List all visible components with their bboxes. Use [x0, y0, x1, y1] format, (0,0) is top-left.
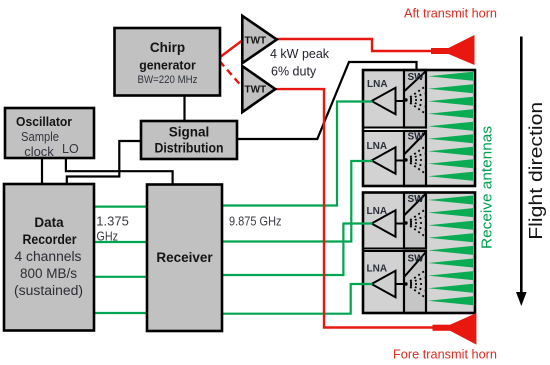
LNA amplifier triangle 2: [372, 147, 396, 173]
antenna array background panel 2: [425, 193, 475, 314]
LNA amplifier triangle 4: [372, 271, 396, 297]
switch box SW1: [404, 70, 426, 128]
svg-text:(sustained): (sustained): [14, 283, 83, 298]
svg-text:BW=220 MHz: BW=220 MHz: [138, 74, 198, 86]
svg-text:800 MB/s: 800 MB/s: [20, 266, 77, 281]
flight direction arrow line: [520, 37, 523, 294]
switch arm diagonal SW4: [405, 253, 426, 277]
box signal distribution: [141, 121, 237, 159]
svg-text:clock: clock: [24, 144, 54, 159]
green wire receiver to LNA1: [222, 102, 373, 206]
switch arm diagonal SW3: [405, 194, 426, 215]
green wire data recorder to receiver ch4: [94, 312, 148, 314]
green wire receiver to LNA3: [222, 224, 373, 276]
green wire data recorder to receiver ch3: [94, 276, 148, 278]
switch fan dotted throws SW2: [410, 147, 424, 173]
LNA module box 2: [363, 131, 404, 186]
LNA amplifier triangle 3: [372, 210, 396, 236]
svg-text:6% duty: 6% duty: [271, 65, 317, 79]
svg-text:Sample: Sample: [21, 129, 59, 144]
svg-text:Fore transmit horn: Fore transmit horn: [393, 347, 497, 362]
svg-text:Receive antennas: Receive antennas: [480, 126, 496, 249]
svg-text:Signal: Signal: [169, 125, 210, 140]
LNA module box 4: [363, 251, 404, 313]
svg-text:TWT: TWT: [245, 36, 267, 47]
red wire TWT1 output to aft horn: [276, 39, 432, 51]
receive panel 2 outline: [363, 193, 475, 314]
svg-text:LNA: LNA: [367, 141, 388, 152]
switch box SW2: [404, 131, 426, 186]
svg-text:SW: SW: [408, 254, 425, 265]
green wire data recorder to receiver ch2: [94, 241, 148, 243]
svg-text:Chirp: Chirp: [150, 40, 185, 55]
green wire receiver to LNA2: [222, 161, 373, 242]
svg-text:SW: SW: [408, 132, 425, 143]
box oscillator: [5, 108, 94, 158]
wire chirp generator to signal distribution: [183, 95, 185, 121]
svg-text:Recorder: Recorder: [23, 232, 78, 247]
switch arm diagonal SW1: [405, 72, 426, 92]
svg-text:4 channels: 4 channels: [15, 249, 82, 264]
switch box SW3: [404, 193, 426, 249]
svg-text:LNA: LNA: [367, 206, 388, 217]
svg-text:Oscillator: Oscillator: [16, 114, 72, 129]
green wire data recorder to receiver ch1: [94, 206, 148, 208]
svg-text:9.875 GHz: 9.875 GHz: [229, 214, 282, 229]
aft transmit horn symbol: [431, 35, 475, 65]
wire signal distribution to data recorder: [67, 141, 142, 185]
TWT amplifier 2: [242, 66, 275, 112]
receive panel 1 outline: [363, 70, 475, 186]
svg-text:Aft transmit horn: Aft transmit horn: [404, 6, 497, 21]
svg-text:Distribution: Distribution: [155, 141, 224, 156]
box receiver: [147, 185, 222, 332]
svg-text:generator: generator: [139, 58, 196, 73]
svg-text:SW: SW: [408, 72, 425, 83]
wire signal distribution to switch column: [237, 62, 417, 139]
fore transmit horn symbol: [433, 313, 477, 345]
svg-text:Data: Data: [34, 215, 64, 230]
svg-text:SW: SW: [408, 194, 425, 205]
wire LNA3 output to SW3: [396, 223, 406, 225]
antenna array background panel 1: [425, 70, 475, 186]
red wire TWT2 output to fore horn: [275, 89, 434, 327]
switch fan dotted throws SW3: [410, 210, 424, 236]
TWT amplifier 1: [242, 16, 276, 63]
svg-text:1.375: 1.375: [96, 214, 129, 229]
wire LNA1 output to SW1: [396, 100, 406, 102]
wire LNA4 output to SW4: [396, 283, 406, 285]
LNA module box 1: [363, 70, 404, 128]
antenna elements panel 2: [428, 196, 473, 306]
antenna elements panel 1: [428, 72, 473, 181]
switch fan dotted throws SW4: [410, 271, 424, 297]
svg-text:LNA: LNA: [367, 79, 388, 90]
flight direction arrowhead: [516, 292, 527, 306]
wire LNA2 output to SW2: [396, 160, 406, 162]
svg-text:4 kW peak: 4 kW peak: [270, 47, 330, 61]
green wire receiver to LNA4: [222, 284, 373, 314]
svg-text:Receiver: Receiver: [156, 250, 213, 265]
switch fan dotted throws SW1: [410, 87, 424, 113]
switch arm diagonal SW2: [405, 133, 426, 155]
box chirp generator: [115, 28, 221, 96]
red wire chirp to TWT1 solid: [220, 40, 244, 58]
svg-text:TWT: TWT: [245, 85, 267, 96]
red wire chirp to TWT2 dashed: [220, 61, 244, 89]
LNA module box 3: [363, 193, 404, 249]
svg-text:LNA: LNA: [367, 264, 388, 275]
wire LO to receiver: [66, 158, 173, 185]
switch box SW4: [404, 251, 426, 313]
svg-text:GHz: GHz: [97, 229, 119, 244]
svg-text:Flight direction: Flight direction: [525, 102, 546, 240]
svg-text:LO: LO: [62, 142, 79, 156]
box data recorder: [4, 184, 94, 331]
wire oscillator sample clock to data recorder: [41, 158, 43, 185]
LNA amplifier triangle 1: [372, 88, 396, 114]
